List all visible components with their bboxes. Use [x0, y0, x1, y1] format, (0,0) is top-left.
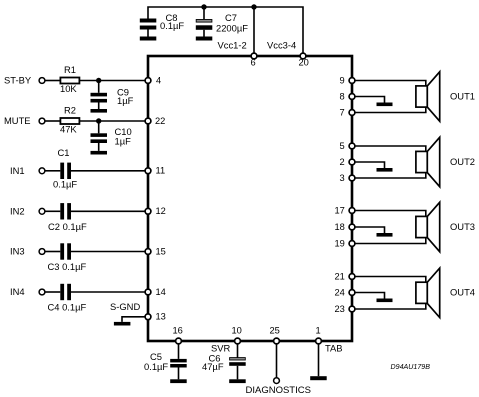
speaker OUT2	[416, 137, 440, 186]
pin 5	[349, 143, 355, 149]
svg-text:IN2: IN2	[10, 206, 25, 217]
svg-text:17: 17	[335, 205, 345, 215]
pin 10	[235, 338, 241, 344]
pin 13	[145, 314, 151, 320]
capacitor C1	[45, 163, 71, 179]
svg-text:16: 16	[173, 326, 183, 336]
wire R1 to pin 4	[79, 80, 144, 82]
capacitor C2	[45, 203, 71, 219]
wire pin3 to speaker OUT2 bottom	[355, 173, 426, 178]
svg-text:0.1µF: 0.1µF	[160, 20, 184, 31]
svg-text:2: 2	[340, 157, 345, 167]
svg-text:18: 18	[335, 222, 345, 232]
svg-text:R1: R1	[64, 64, 76, 75]
wire pin24 to ground stub	[355, 293, 384, 299]
svg-text:OUT3: OUT3	[450, 221, 475, 232]
node: junction dot C7 tap	[201, 4, 206, 9]
svg-text:25: 25	[270, 326, 280, 336]
svg-text:IN4: IN4	[10, 286, 25, 297]
svg-text:R2: R2	[64, 105, 76, 116]
pin 12	[145, 208, 151, 214]
svg-text:0.1µF: 0.1µF	[53, 179, 77, 190]
pin 11	[145, 168, 151, 174]
svg-text:24: 24	[335, 287, 345, 297]
svg-text:MUTE: MUTE	[4, 115, 31, 126]
wire pin21 to speaker OUT4 top	[355, 277, 426, 283]
node: junction dot R1/C9	[96, 78, 101, 83]
svg-text:10K: 10K	[60, 83, 77, 94]
ground (OUT2 return)	[377, 168, 393, 172]
svg-text:Vcc3-4: Vcc3-4	[267, 40, 296, 51]
ground (S-GND)	[114, 322, 130, 326]
node: junction dot R2/C10	[96, 118, 101, 123]
capacitor C9	[91, 81, 108, 110]
pin 23	[349, 306, 355, 312]
pin 9	[349, 78, 355, 84]
pin 4	[145, 78, 151, 84]
speaker OUT4	[416, 268, 440, 317]
wire C2 to pin 12	[71, 210, 145, 212]
svg-text:1µF: 1µF	[115, 135, 132, 146]
svg-text:23: 23	[335, 304, 345, 314]
ground (C10)	[91, 151, 108, 155]
svg-text:3: 3	[340, 173, 345, 183]
wire pin9 to speaker OUT1 top	[355, 81, 426, 86]
svg-text:19: 19	[335, 238, 345, 248]
wire C1 to pin 11	[71, 170, 145, 172]
IC U1 power amplifier body	[148, 56, 352, 341]
capacitor C4	[45, 284, 71, 300]
svg-text:C4 0.1µF: C4 0.1µF	[48, 302, 87, 313]
capacitor C6 (polarized)	[229, 344, 246, 379]
svg-text:ST-BY: ST-BY	[4, 75, 32, 86]
svg-text:6: 6	[251, 57, 256, 67]
wire R2 to pin 22	[79, 120, 144, 122]
capacitor C3	[45, 243, 71, 259]
pin 25	[274, 338, 280, 344]
pin 24	[349, 290, 355, 296]
node DIAGNOSTICS terminal	[274, 378, 280, 384]
svg-text:D94AU179B: D94AU179B	[391, 363, 431, 371]
svg-text:10: 10	[232, 326, 242, 336]
capacitor C5	[170, 344, 187, 379]
wire pin19 to speaker OUT3 bottom	[355, 238, 426, 244]
svg-text:0.1µF: 0.1µF	[144, 361, 168, 372]
svg-text:21: 21	[335, 271, 345, 281]
svg-text:C3 0.1µF: C3 0.1µF	[48, 261, 87, 272]
svg-text:13: 13	[156, 312, 166, 322]
pin 16	[176, 338, 182, 344]
ground (C9)	[91, 109, 108, 113]
ground (OUT4 return)	[377, 299, 393, 303]
svg-text:47K: 47K	[60, 123, 77, 134]
pin 18	[349, 224, 355, 230]
svg-text:20: 20	[299, 57, 309, 67]
pin 2	[349, 159, 355, 165]
svg-text:7: 7	[340, 107, 345, 117]
wire pin8 to ground stub	[355, 97, 384, 103]
svg-text:15: 15	[156, 246, 166, 256]
ground (OUT1 return)	[377, 103, 393, 107]
svg-text:14: 14	[156, 287, 166, 297]
svg-text:11: 11	[156, 166, 166, 176]
ground (C7)	[196, 37, 213, 41]
ground (C5)	[170, 379, 187, 383]
svg-text:IN3: IN3	[10, 246, 25, 257]
wire MUTE to R2	[45, 120, 60, 122]
ground (TAB)	[310, 376, 327, 380]
svg-text:OUT4: OUT4	[450, 287, 475, 298]
ground (C8)	[140, 37, 157, 41]
wire C3 to pin 15	[71, 251, 145, 253]
svg-text:1: 1	[316, 326, 321, 336]
svg-text:C1: C1	[58, 147, 70, 158]
pin 20	[300, 53, 306, 59]
svg-text:IN1: IN1	[10, 165, 25, 176]
wire pin2 to ground stub	[355, 162, 384, 168]
pin 1	[316, 338, 322, 344]
wire C4 to pin 14	[71, 291, 145, 293]
pin 3	[349, 175, 355, 181]
pin 22	[145, 118, 151, 124]
svg-text:47µF: 47µF	[202, 361, 224, 372]
pin 21	[349, 274, 355, 280]
ground (OUT3 return)	[377, 233, 393, 237]
speaker OUT1	[416, 72, 440, 121]
pin 15	[145, 249, 151, 255]
svg-text:5: 5	[340, 141, 345, 151]
wire pin5 to speaker OUT2 top	[355, 146, 426, 151]
svg-text:DIAGNOSTICS: DIAGNOSTICS	[246, 385, 311, 396]
svg-text:Vcc1-2: Vcc1-2	[218, 40, 247, 51]
svg-text:OUT2: OUT2	[450, 156, 475, 167]
capacitor C7 (polarized)	[196, 20, 213, 37]
svg-text:1µF: 1µF	[117, 95, 134, 106]
wire pin13 to signal ground	[122, 317, 145, 322]
wire: top supply rail	[148, 7, 303, 56]
svg-text:4: 4	[156, 75, 161, 85]
wire pin7 to speaker OUT1 bottom	[355, 107, 426, 112]
svg-text:OUT1: OUT1	[450, 91, 475, 102]
pin 17	[349, 208, 355, 214]
ground (C6)	[229, 379, 246, 383]
svg-text:2200µF: 2200µF	[216, 22, 248, 33]
wire pin17 to speaker OUT3 top	[355, 211, 426, 217]
pin 6	[251, 53, 257, 59]
svg-text:22: 22	[155, 116, 165, 126]
svg-text:TAB: TAB	[325, 343, 343, 354]
wire pin18 to ground stub	[355, 227, 384, 233]
wire pin23 to speaker OUT4 bottom	[355, 303, 426, 309]
pin 14	[145, 289, 151, 295]
node: junction dot pin6 tap	[251, 4, 256, 9]
svg-text:12: 12	[156, 206, 166, 216]
resistor R1	[60, 78, 79, 84]
svg-text:9: 9	[340, 75, 345, 85]
resistor R2	[60, 118, 79, 124]
svg-text:S-GND: S-GND	[110, 301, 140, 312]
speaker OUT3	[416, 202, 440, 251]
svg-text:C2 0.1µF: C2 0.1µF	[48, 221, 87, 232]
capacitor C10	[91, 121, 108, 151]
svg-text:8: 8	[340, 91, 345, 101]
pin 19	[349, 241, 355, 247]
pin 8	[349, 94, 355, 100]
wire ST-BY to R1	[45, 80, 60, 82]
wire pin1 to ground	[318, 344, 320, 376]
pin 7	[349, 110, 355, 116]
wire pin25 to DIAGNOSTICS terminal	[276, 344, 278, 377]
capacitor C8	[140, 19, 157, 37]
